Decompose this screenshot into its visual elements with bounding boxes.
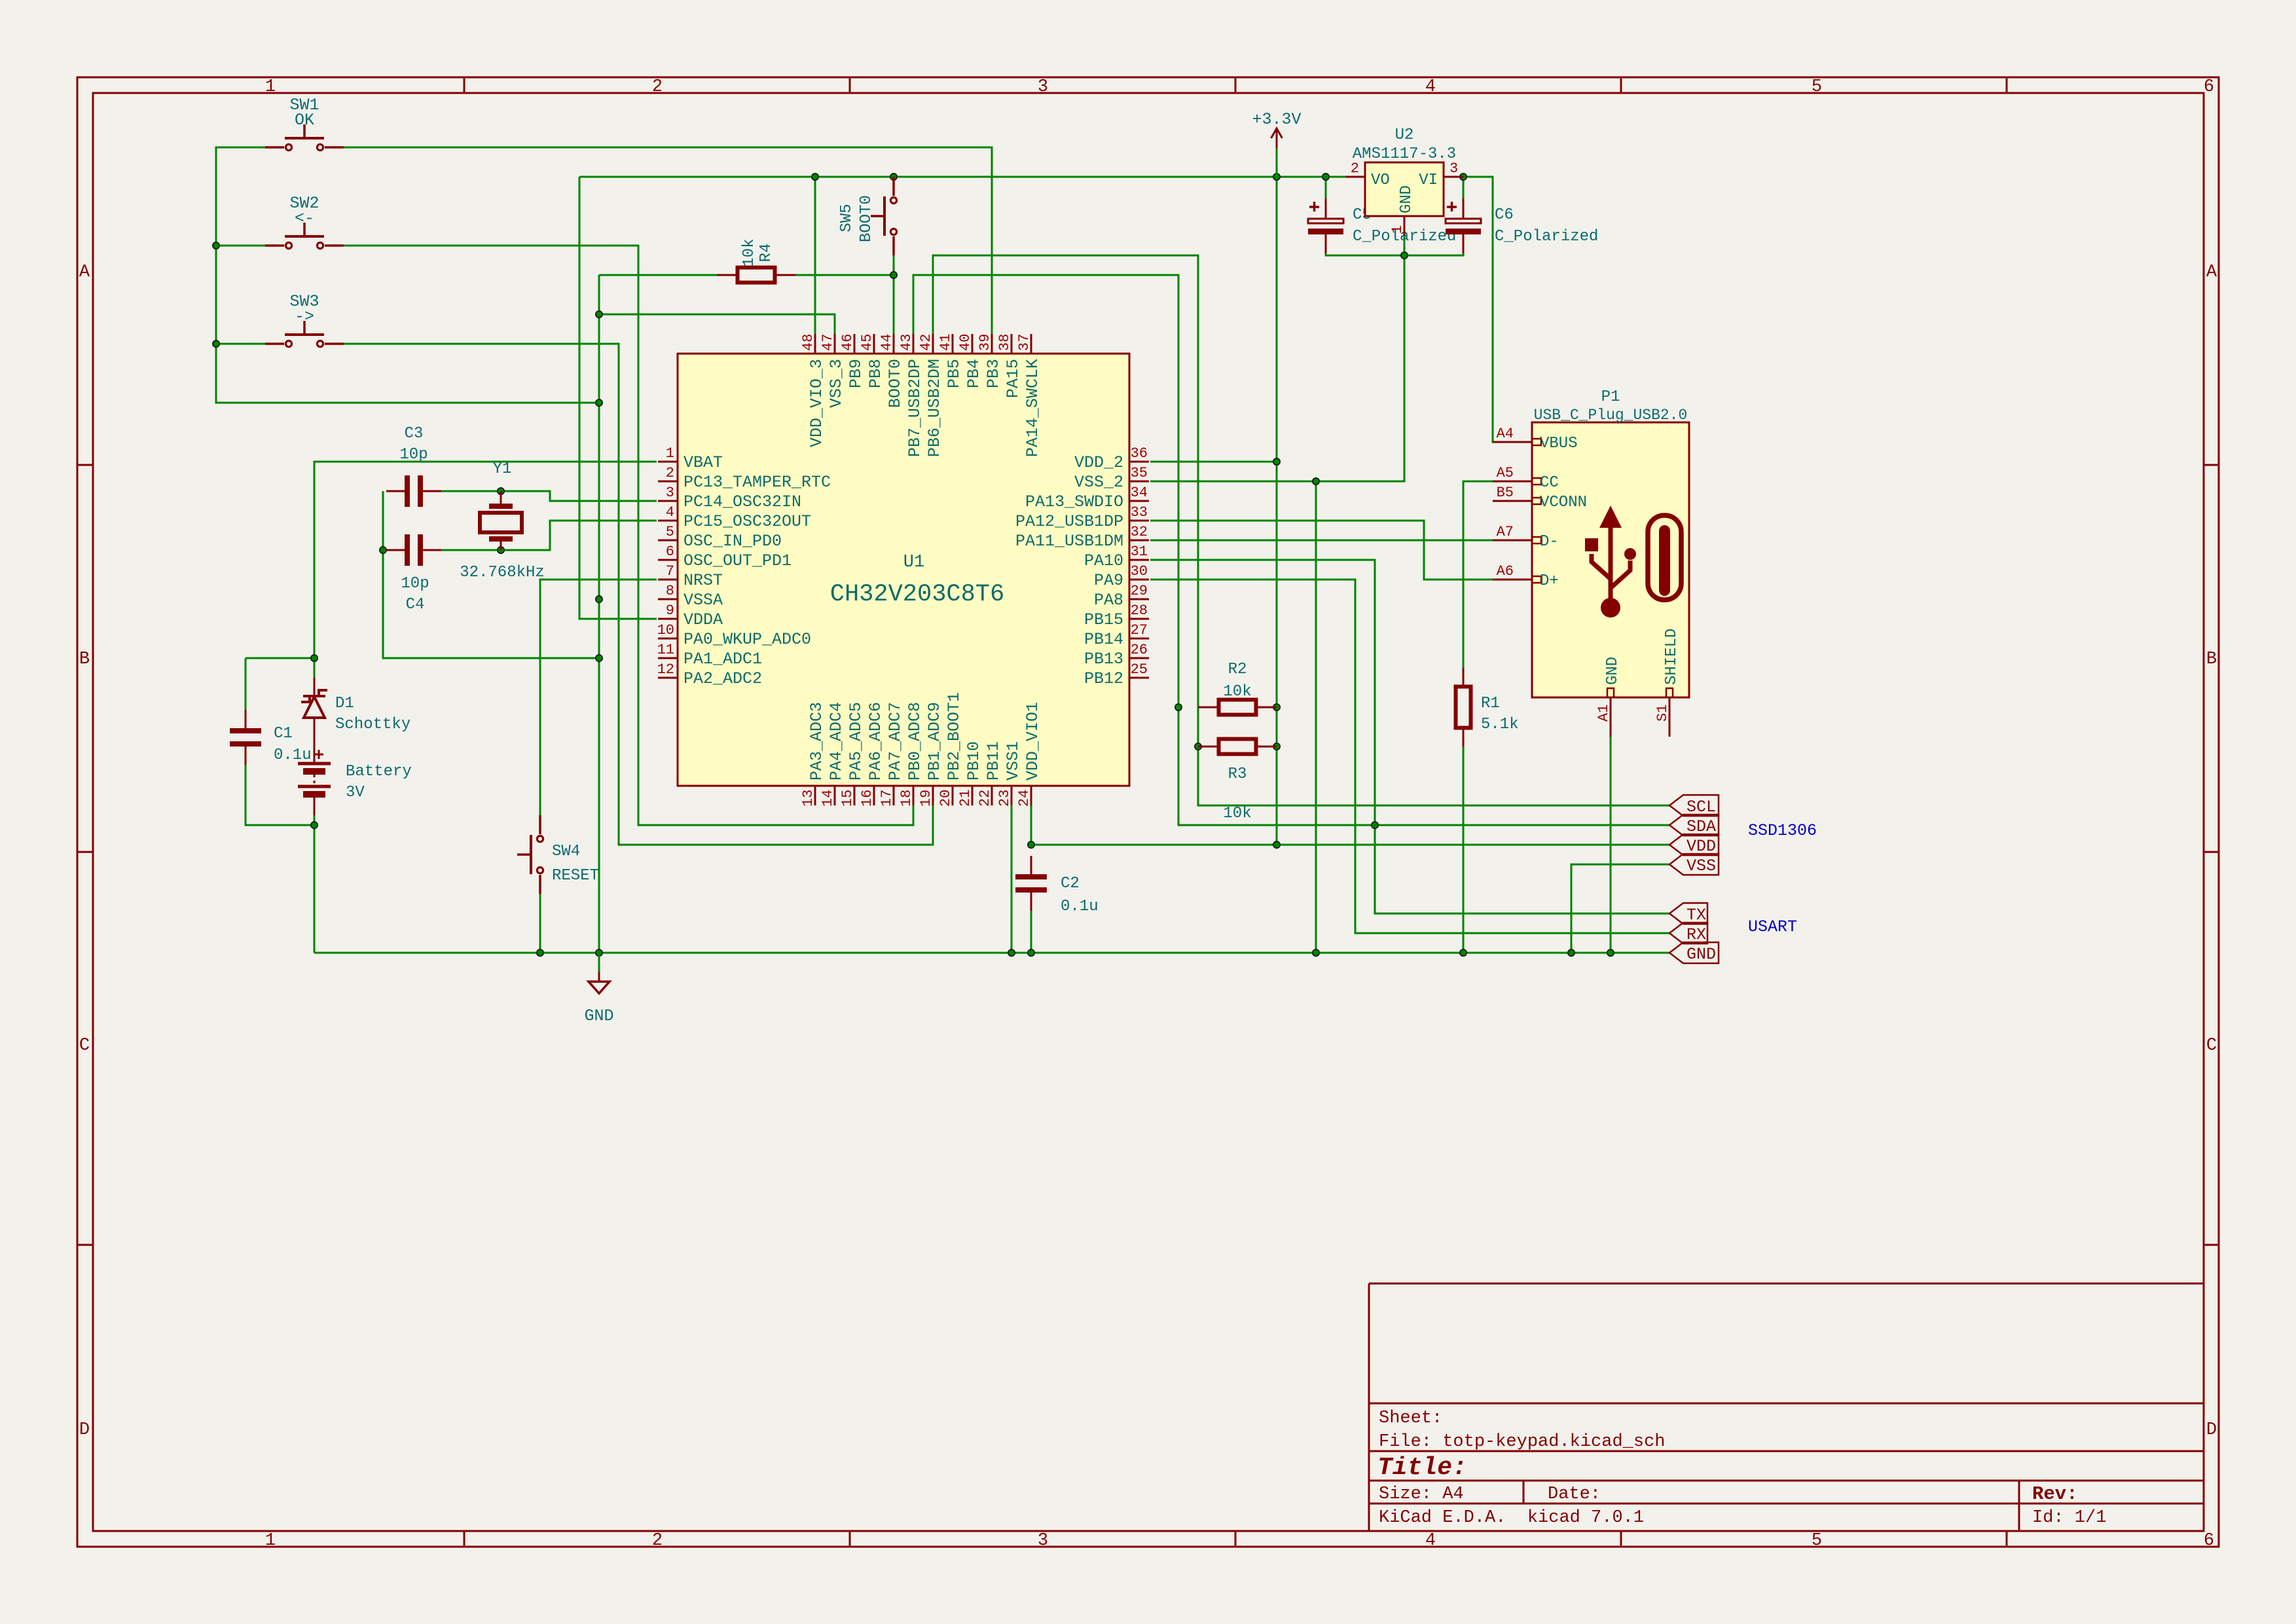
- ic U1 CH32V203C8T6 body: [678, 354, 1129, 786]
- wire battery minus to GND rail: [314, 815, 316, 953]
- svg-text:22: 22: [977, 790, 993, 807]
- svg-text:35: 35: [1131, 465, 1148, 481]
- wire PA9 to RX: [1150, 580, 1669, 933]
- resistor R3 10k: [1198, 739, 1277, 754]
- switch SW4 RESET: [517, 815, 543, 894]
- junction: [1607, 950, 1614, 956]
- svg-text:37: 37: [1016, 334, 1032, 351]
- svg-text:PB15: PB15: [1084, 610, 1123, 629]
- svg-text:R4: R4: [757, 244, 775, 263]
- junction: [1273, 743, 1280, 750]
- wire SW2 left: [216, 245, 265, 247]
- regulator U2 AMS1117-3.3: [1345, 162, 1463, 236]
- wire SDA PB7 column: [913, 275, 1669, 825]
- wire VI to VBUS: [1463, 177, 1494, 442]
- capacitor C4 10p: [386, 534, 441, 566]
- wire SW3 net to PB1: [344, 344, 933, 845]
- svg-text:13: 13: [800, 790, 816, 807]
- svg-text:Battery: Battery: [346, 763, 412, 781]
- P1 pin B5 VCONN: [1493, 485, 1587, 511]
- wire Y1 bottom to PC15: [501, 521, 657, 550]
- connector P1 USB_C_Plug_USB2.0: [1532, 422, 1689, 697]
- junction: [596, 399, 602, 406]
- U1 pin 13 PA3_ADC3: [800, 702, 826, 807]
- svg-text:0.1u: 0.1u: [1061, 898, 1099, 915]
- svg-text:48: 48: [800, 334, 816, 351]
- svg-text:11: 11: [657, 642, 674, 658]
- polarized capacitor C5: [1308, 198, 1343, 253]
- svg-text:PA7_ADC7: PA7_ADC7: [886, 702, 905, 781]
- svg-text:10k: 10k: [1223, 683, 1251, 701]
- svg-text:USART: USART: [1748, 917, 1797, 936]
- U1 pin 47 VSS_3: [820, 334, 846, 408]
- U1 pin 12 PA2_ADC2: [657, 661, 762, 688]
- svg-text:KiCad E.D.A. kicad 7.0.1: KiCad E.D.A. kicad 7.0.1: [1379, 1508, 1644, 1528]
- wire VSS_2 branch to GND rail: [1315, 481, 1317, 953]
- svg-text:PB1_ADC9: PB1_ADC9: [925, 702, 944, 781]
- svg-text:+3.3V: +3.3V: [1252, 110, 1301, 129]
- svg-text:Id: 1/1: Id: 1/1: [2032, 1508, 2106, 1528]
- svg-text:PA0_WKUP_ADC0: PA0_WKUP_ADC0: [683, 630, 811, 649]
- wire C1 top: [246, 657, 314, 659]
- svg-text:D+: D+: [1540, 572, 1559, 590]
- junction: [1460, 174, 1467, 180]
- svg-text:SDA: SDA: [1686, 817, 1716, 836]
- svg-text:6: 6: [666, 544, 674, 560]
- svg-text:C3: C3: [405, 425, 424, 443]
- svg-text:Rev:: Rev:: [2032, 1483, 2078, 1505]
- svg-text:1: 1: [265, 1531, 276, 1551]
- wire VDD row to SSD1306: [1031, 844, 1669, 846]
- svg-text:PB0_ADC8: PB0_ADC8: [905, 702, 924, 781]
- resistor R1 5.1k: [1456, 668, 1471, 747]
- svg-text:D-: D-: [1540, 533, 1559, 551]
- global label GND: [1669, 942, 1719, 964]
- svg-text:PA15: PA15: [1004, 359, 1023, 398]
- wire R4 to BOOT0 junction: [786, 274, 894, 276]
- wire GND column vertical: [598, 275, 600, 953]
- svg-text:PA4_ADC4: PA4_ADC4: [827, 702, 846, 781]
- svg-text:1: 1: [666, 445, 674, 462]
- svg-text:PB8: PB8: [866, 359, 885, 388]
- U1 pin 3 PC14_OSC32IN: [658, 485, 801, 511]
- wire PA10 to TX: [1150, 560, 1669, 913]
- svg-text:PA2_ADC2: PA2_ADC2: [683, 669, 762, 688]
- global label RX: [1669, 923, 1707, 944]
- wire VSS_2 to U2 GND net: [1150, 255, 1404, 481]
- wire USB GND pin to rail: [1610, 737, 1612, 953]
- svg-text:C_Polarized: C_Polarized: [1495, 228, 1598, 246]
- wire VBAT to battery: [314, 462, 657, 678]
- svg-text:VDD_VIO_3: VDD_VIO_3: [807, 359, 826, 447]
- wire VDD_2 to +3.3V column: [1150, 461, 1277, 463]
- svg-text:PA1_ADC1: PA1_ADC1: [683, 650, 762, 669]
- svg-text:24: 24: [1016, 790, 1032, 807]
- svg-text:VBUS: VBUS: [1540, 435, 1578, 452]
- svg-text:10k: 10k: [740, 238, 758, 267]
- svg-text:->: ->: [295, 307, 314, 326]
- svg-text:15: 15: [839, 790, 856, 807]
- polarized capacitor C6: [1446, 198, 1481, 253]
- wire SW1 net to PB3: [344, 147, 992, 335]
- svg-text:PA3_ADC3: PA3_ADC3: [807, 702, 826, 781]
- svg-text:10: 10: [657, 622, 674, 638]
- svg-text:30: 30: [1131, 563, 1148, 580]
- svg-text:3V: 3V: [346, 784, 365, 802]
- U1 pin 38 PA15: [996, 334, 1023, 398]
- P1 pin A4 VBUS: [1493, 426, 1578, 452]
- svg-text:40: 40: [957, 334, 974, 351]
- U1 pin 17 PA7_ADC7: [879, 702, 905, 807]
- svg-text:PB10: PB10: [964, 741, 983, 781]
- junction: [1273, 841, 1280, 848]
- svg-text:VI: VI: [1419, 172, 1438, 189]
- junction: [498, 488, 504, 494]
- svg-text:44: 44: [879, 334, 895, 351]
- U1 pin 32 PA11_USB1DM: [1015, 524, 1149, 551]
- svg-text:A: A: [79, 263, 90, 282]
- U1 pin 41 PB5: [938, 334, 964, 388]
- svg-text:6: 6: [2204, 77, 2214, 97]
- P1 pin A5 CC: [1493, 465, 1559, 492]
- svg-text:RESET: RESET: [552, 867, 599, 885]
- svg-text:41: 41: [938, 334, 954, 351]
- wire +3.3V stem: [1276, 148, 1278, 177]
- wire SCL PB6 column: [933, 255, 1669, 805]
- resistor R2 10k: [1198, 700, 1277, 715]
- svg-text:P1: P1: [1601, 388, 1620, 406]
- junction: [537, 950, 543, 956]
- svg-text:PA10: PA10: [1084, 551, 1123, 570]
- svg-text:GND: GND: [584, 1006, 613, 1025]
- svg-text:PB2_BOOT1: PB2_BOOT1: [945, 692, 964, 781]
- svg-text:TX: TX: [1686, 906, 1706, 925]
- junction: [1372, 822, 1378, 828]
- svg-text:26: 26: [1131, 642, 1148, 658]
- power symbol +3.3V: [1271, 128, 1283, 148]
- wire C3 to Y1 top: [441, 490, 501, 492]
- svg-text:VSS1: VSS1: [1004, 741, 1023, 781]
- +3.3V column vertical: [1276, 177, 1278, 845]
- svg-text:PA6_ADC6: PA6_ADC6: [866, 702, 885, 781]
- svg-text:GND: GND: [1686, 945, 1716, 964]
- global label VDD: [1669, 834, 1719, 856]
- USB logo icon: [1585, 506, 1681, 618]
- svg-text:Size: A4: Size: A4: [1379, 1485, 1464, 1504]
- svg-text:36: 36: [1131, 445, 1148, 462]
- U1 pin 10 PA0_WKUP_ADC0: [657, 622, 811, 649]
- wire Y1 top to PC14: [501, 491, 657, 501]
- svg-text:VDDA: VDDA: [683, 610, 723, 629]
- svg-text:17: 17: [879, 790, 895, 807]
- svg-text:C1: C1: [274, 725, 293, 743]
- junction: [311, 655, 318, 661]
- svg-text:VSSA: VSSA: [683, 591, 723, 610]
- svg-text:5: 5: [1812, 1531, 1822, 1551]
- wire R4 left to GND column: [599, 274, 728, 276]
- junction: [1008, 950, 1015, 956]
- wire VSS_3 to GND column: [599, 314, 835, 335]
- svg-text:33: 33: [1131, 504, 1148, 521]
- svg-text:PC14_OSC32IN: PC14_OSC32IN: [683, 492, 801, 511]
- wire C6 top lead: [1463, 177, 1465, 204]
- svg-text:VDD: VDD: [1686, 837, 1716, 856]
- svg-text:PB5: PB5: [945, 359, 964, 388]
- P1 pin A6 D+: [1493, 563, 1559, 590]
- svg-text:Schottky: Schottky: [335, 716, 410, 733]
- svg-text:<-: <-: [295, 209, 314, 228]
- junction: [890, 272, 897, 278]
- svg-text:38: 38: [996, 334, 1013, 351]
- svg-text:1: 1: [1389, 225, 1406, 234]
- svg-text:GND: GND: [1398, 185, 1415, 213]
- wire SW1 left: [216, 147, 599, 403]
- U1 pin 8 VSSA: [658, 583, 723, 610]
- svg-text:VSS_3: VSS_3: [827, 359, 846, 408]
- svg-text:19: 19: [918, 790, 934, 807]
- U1 pin 1 VBAT: [658, 445, 723, 472]
- svg-text:S1: S1: [1654, 705, 1671, 722]
- svg-text:SSD1306: SSD1306: [1748, 821, 1817, 840]
- switch SW5 BOOT0: [871, 177, 897, 255]
- wire CC to R1: [1463, 481, 1494, 668]
- svg-text:47: 47: [820, 334, 836, 351]
- svg-text:BOOT0: BOOT0: [858, 195, 875, 242]
- U1 pin 4 PC15_OSC32OUT: [658, 504, 811, 531]
- svg-text:23: 23: [996, 790, 1013, 807]
- svg-text:5: 5: [1812, 77, 1822, 97]
- svg-text:PA8: PA8: [1094, 591, 1123, 610]
- svg-text:A4: A4: [1497, 426, 1514, 442]
- U1 pin 14 PA4_ADC4: [820, 702, 846, 807]
- svg-text:28: 28: [1131, 602, 1148, 619]
- U1 pin 35 VSS_2: [1074, 465, 1149, 492]
- global label TX: [1669, 903, 1707, 925]
- svg-text:VDD_2: VDD_2: [1074, 453, 1123, 472]
- junction: [1273, 174, 1280, 180]
- wire SW2 net to PB0: [344, 246, 913, 825]
- U1 pin 48 VDD_VIO_3: [800, 334, 826, 447]
- svg-text:43: 43: [898, 334, 915, 351]
- svg-text:32.768kHz: 32.768kHz: [460, 564, 545, 581]
- U1 pin 25 PB12: [1084, 661, 1149, 688]
- U1 pin 21 PB10: [957, 741, 983, 807]
- resistor R4 10k: [717, 268, 795, 283]
- svg-text:10p: 10p: [401, 575, 429, 593]
- junction: [1273, 704, 1280, 710]
- svg-text:32: 32: [1131, 524, 1148, 540]
- svg-text:Sheet:: Sheet:: [1379, 1409, 1442, 1428]
- wire GND stem: [598, 953, 600, 972]
- U1 pin 22 PB11: [977, 741, 1003, 807]
- svg-text:PB4: PB4: [964, 359, 983, 388]
- switch SW1 OK: [265, 96, 344, 151]
- svg-text:OSC_IN_PD0: OSC_IN_PD0: [683, 532, 782, 551]
- border column numbers: [265, 77, 2214, 1551]
- capacitor C3 10p: [386, 475, 441, 507]
- svg-text:VSS: VSS: [1686, 857, 1716, 876]
- svg-text:D1: D1: [335, 695, 354, 712]
- svg-text:46: 46: [839, 334, 856, 351]
- U1 pin 40 PB4: [957, 334, 983, 388]
- U1 pin 23 VSS1: [996, 741, 1023, 807]
- P1 pin S1 SHIELD: [1654, 629, 1681, 737]
- svg-text:VDD_VIO1: VDD_VIO1: [1023, 702, 1042, 781]
- svg-text:29: 29: [1131, 583, 1148, 599]
- U1 pin 34 PA13_SWDIO: [1025, 485, 1149, 511]
- svg-text:PB7_USB2DP: PB7_USB2DP: [905, 359, 924, 457]
- svg-text:PA5_ADC5: PA5_ADC5: [847, 702, 866, 781]
- svg-text:3: 3: [1038, 1531, 1048, 1551]
- U1 pin 19 PB1_ADC9: [918, 702, 944, 807]
- junction: [596, 655, 602, 661]
- svg-text:A5: A5: [1497, 465, 1514, 481]
- wire SW4 bottom to GND rail: [539, 894, 541, 953]
- C5 C6 ground rail: [1326, 248, 1463, 255]
- wire load caps left column: [383, 491, 599, 658]
- svg-text:3: 3: [1038, 77, 1048, 97]
- svg-text:4: 4: [1425, 77, 1436, 97]
- svg-text:File: totp-keypad.kicad_sch: File: totp-keypad.kicad_sch: [1379, 1432, 1665, 1452]
- svg-text:PB6_USB2DM: PB6_USB2DM: [925, 359, 944, 457]
- svg-text:PB11: PB11: [984, 741, 1003, 781]
- svg-text:AMS1117-3.3: AMS1117-3.3: [1353, 145, 1456, 163]
- U1 pin 36 VDD_2: [1074, 445, 1149, 472]
- wire C4 to Y1 bottom: [441, 549, 501, 551]
- svg-text:C6: C6: [1495, 206, 1514, 224]
- wire VSS1 to GND rail: [1011, 804, 1013, 953]
- svg-text:R2: R2: [1228, 661, 1247, 678]
- wire pin48 VDD_VIO_3: [814, 177, 816, 335]
- svg-text:OSC_OUT_PD1: OSC_OUT_PD1: [683, 551, 792, 570]
- svg-text:PA11_USB1DM: PA11_USB1DM: [1015, 532, 1123, 551]
- border row letters: [79, 263, 2217, 1440]
- U1 pin 30 PA9: [1094, 563, 1149, 590]
- svg-text:10k: 10k: [1223, 805, 1251, 822]
- svg-text:PB14: PB14: [1084, 630, 1123, 649]
- U1 pin 39 PB3: [977, 334, 1003, 388]
- svg-text:8: 8: [666, 583, 674, 599]
- svg-text:SCL: SCL: [1686, 798, 1716, 817]
- junction: [213, 341, 219, 347]
- wire NRST to SW4: [540, 580, 657, 815]
- svg-text:R1: R1: [1481, 695, 1500, 712]
- crystal Y1 32.768kHz: [480, 491, 522, 550]
- junction: [1401, 252, 1408, 259]
- junction: [1322, 174, 1329, 180]
- svg-text:39: 39: [977, 334, 993, 351]
- U1 pin 20 PB2_BOOT1: [938, 692, 964, 807]
- svg-text:5.1k: 5.1k: [1481, 716, 1519, 733]
- diode D1 Schottky: [301, 678, 327, 763]
- wire PA11_USB1DM to D-: [1150, 540, 1494, 542]
- U1 pin 2 PC13_TAMPER_RTC: [658, 465, 831, 492]
- junction: [498, 547, 504, 553]
- svg-text:U1: U1: [903, 553, 924, 572]
- svg-text:21: 21: [957, 790, 974, 807]
- svg-text:SHIELD: SHIELD: [1663, 629, 1681, 685]
- svg-text:PB12: PB12: [1084, 669, 1123, 688]
- wire VSS label to GND rail: [1571, 864, 1669, 953]
- U1 pin 6 OSC_OUT_PD1: [658, 544, 792, 570]
- junction: [812, 174, 818, 180]
- junction: [311, 822, 318, 828]
- U1 pin 31 PA10: [1084, 544, 1149, 570]
- svg-text:27: 27: [1131, 622, 1148, 638]
- U1 pin 44 BOOT0: [879, 334, 905, 408]
- svg-text:NRST: NRST: [683, 571, 723, 590]
- wire R1 bottom to GND rail: [1463, 747, 1465, 953]
- global label SDA: [1669, 815, 1719, 836]
- U1 pin 28 PB15: [1084, 602, 1149, 629]
- +3.3V rail to U2 VO: [579, 176, 1345, 178]
- U1 pin 11 PA1_ADC1: [657, 642, 762, 669]
- wire C5 top lead: [1325, 177, 1327, 204]
- svg-text:PA14_SWCLK: PA14_SWCLK: [1023, 359, 1042, 457]
- junction: [1175, 704, 1182, 710]
- svg-text:25: 25: [1131, 661, 1148, 678]
- svg-text:0.1u: 0.1u: [274, 747, 312, 764]
- svg-text:VCONN: VCONN: [1540, 494, 1587, 511]
- svg-text:45: 45: [859, 334, 875, 351]
- svg-text:4: 4: [666, 504, 674, 521]
- svg-text:A1: A1: [1595, 705, 1612, 722]
- U1 pin 7 NRST: [658, 563, 723, 590]
- svg-text:Y1: Y1: [493, 460, 512, 478]
- C6 plus sign: [1447, 202, 1457, 212]
- svg-text:4: 4: [1425, 1531, 1436, 1551]
- U1 pin 18 PB0_ADC8: [898, 702, 924, 807]
- svg-text:VO: VO: [1371, 172, 1390, 189]
- svg-text:OK: OK: [295, 111, 314, 130]
- global label SCL: [1669, 795, 1719, 817]
- svg-text:C: C: [2206, 1036, 2217, 1056]
- svg-text:6: 6: [2204, 1531, 2214, 1551]
- U1 pin 43 PB7_USB2DP: [898, 334, 924, 457]
- wire VDDA to +3.3V rail: [579, 177, 657, 619]
- svg-text:R3: R3: [1228, 766, 1247, 783]
- junction: [1195, 743, 1201, 750]
- svg-text:12: 12: [657, 661, 674, 678]
- svg-text:PB9: PB9: [847, 359, 866, 388]
- svg-text:U2: U2: [1395, 126, 1414, 144]
- svg-text:A7: A7: [1497, 524, 1514, 540]
- P1 pin A1 GND: [1595, 657, 1622, 737]
- U1 pin 16 PA6_ADC6: [859, 702, 885, 807]
- svg-text:RX: RX: [1686, 925, 1706, 944]
- svg-text:2: 2: [652, 77, 663, 97]
- battery 3V: [298, 750, 331, 815]
- power symbol GND: [589, 972, 610, 993]
- U1 pin 27 PB14: [1084, 622, 1149, 649]
- U1 pin 26 PB13: [1084, 642, 1149, 669]
- capacitor C2 0.1u: [1015, 856, 1047, 911]
- wire SW3 left: [216, 343, 265, 345]
- svg-text:B: B: [2206, 650, 2217, 669]
- junction: [596, 311, 602, 318]
- junction: [1273, 458, 1280, 465]
- wire C1 column top: [245, 658, 247, 728]
- U1 pin 37 PA14_SWCLK: [1016, 334, 1042, 457]
- C5 plus sign: [1309, 202, 1319, 212]
- wire PA12_USB1DP to D+: [1150, 521, 1494, 580]
- svg-text:D: D: [79, 1420, 90, 1440]
- svg-text:C4: C4: [406, 596, 425, 614]
- U1 pin 24 VDD_VIO1: [1016, 702, 1042, 807]
- wire C1 column bottom: [246, 747, 314, 825]
- junction: [1028, 950, 1034, 956]
- U1 pin 46 PB9: [839, 334, 866, 388]
